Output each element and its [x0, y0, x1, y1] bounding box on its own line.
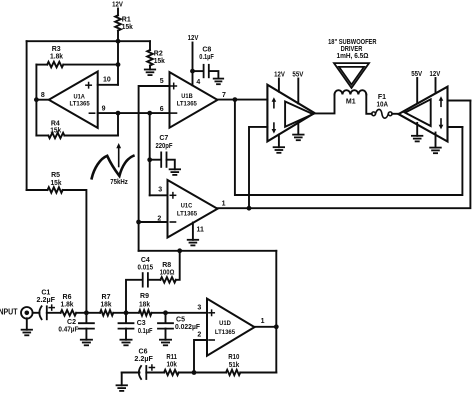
- svg-text:0.47µF: 0.47µF: [58, 327, 79, 334]
- svg-text:0.1µF: 0.1µF: [199, 54, 214, 61]
- svg-text:15k: 15k: [122, 24, 133, 31]
- svg-text:10: 10: [103, 77, 111, 84]
- svg-text:R10: R10: [228, 354, 239, 361]
- svg-text:2.2µF: 2.2µF: [37, 297, 56, 304]
- svg-text:R7: R7: [102, 294, 111, 301]
- svg-text:INPUT: INPUT: [0, 307, 18, 317]
- svg-text:10A: 10A: [377, 102, 389, 109]
- svg-text:M1: M1: [346, 99, 356, 106]
- svg-text:3: 3: [197, 305, 201, 312]
- svg-text:R11: R11: [166, 354, 177, 361]
- svg-text:10k: 10k: [166, 362, 177, 369]
- svg-text:U1C: U1C: [181, 203, 193, 210]
- svg-text:3: 3: [158, 187, 162, 194]
- svg-text:R5: R5: [51, 172, 60, 179]
- svg-text:2: 2: [197, 332, 201, 339]
- svg-text:C5: C5: [176, 317, 185, 324]
- svg-text:DRIVER: DRIVER: [341, 46, 363, 53]
- svg-text:51k: 51k: [229, 362, 240, 369]
- svg-text:F1: F1: [378, 94, 386, 101]
- svg-text:0.022µF: 0.022µF: [175, 324, 201, 331]
- svg-text:55V: 55V: [411, 71, 422, 78]
- svg-text:2.2µF: 2.2µF: [134, 356, 153, 363]
- svg-text:1.8k: 1.8k: [50, 54, 63, 61]
- svg-text:1: 1: [222, 200, 226, 207]
- svg-text:9: 9: [102, 106, 106, 113]
- svg-text:C1: C1: [41, 289, 50, 296]
- svg-text:R2: R2: [154, 51, 163, 58]
- svg-text:R9: R9: [140, 293, 149, 300]
- svg-text:1: 1: [261, 318, 265, 325]
- svg-text:R4: R4: [51, 120, 60, 127]
- svg-text:12V: 12V: [430, 71, 441, 78]
- svg-text:C8: C8: [202, 47, 211, 54]
- svg-text:18k: 18k: [139, 302, 150, 309]
- svg-text:U1D: U1D: [219, 320, 231, 327]
- svg-text:18" SUBWOOFER: 18" SUBWOOFER: [328, 39, 376, 46]
- svg-text:220pF: 220pF: [155, 143, 173, 150]
- svg-text:C7: C7: [159, 135, 168, 142]
- svg-text:12V: 12V: [274, 72, 285, 79]
- svg-text:LT1365: LT1365: [177, 211, 197, 218]
- svg-text:R1: R1: [122, 17, 131, 24]
- svg-text:0.015: 0.015: [138, 264, 154, 271]
- svg-text:LT1365: LT1365: [70, 101, 90, 108]
- svg-text:1.8k: 1.8k: [61, 302, 74, 309]
- svg-text:55V: 55V: [292, 72, 303, 79]
- svg-text:LT1365: LT1365: [215, 329, 235, 336]
- svg-text:2: 2: [157, 216, 161, 223]
- svg-text:15k: 15k: [51, 180, 62, 187]
- svg-text:11: 11: [197, 226, 205, 233]
- svg-text:15k: 15k: [154, 58, 165, 65]
- svg-text:C2: C2: [67, 319, 76, 326]
- svg-text:75kHz: 75kHz: [110, 179, 128, 186]
- svg-text:7: 7: [222, 92, 226, 99]
- svg-text:0.1µF: 0.1µF: [138, 328, 153, 335]
- svg-text:1mH, 6.5Ω: 1mH, 6.5Ω: [337, 53, 369, 60]
- svg-text:12V: 12V: [188, 35, 199, 42]
- svg-text:5: 5: [160, 78, 164, 85]
- svg-text:18k: 18k: [101, 302, 112, 309]
- svg-text:6: 6: [160, 106, 164, 113]
- svg-text:R6: R6: [63, 294, 72, 301]
- svg-text:R3: R3: [52, 46, 61, 53]
- svg-text:C3: C3: [137, 320, 146, 327]
- svg-text:LT1365: LT1365: [177, 101, 197, 108]
- svg-text:15k: 15k: [50, 128, 61, 135]
- svg-text:R8: R8: [162, 262, 171, 269]
- svg-text:C4: C4: [141, 257, 150, 264]
- svg-text:4: 4: [196, 79, 200, 86]
- svg-text:100Ω: 100Ω: [160, 270, 175, 277]
- svg-text:12V: 12V: [112, 2, 123, 9]
- svg-text:C6: C6: [139, 348, 148, 355]
- svg-text:8: 8: [41, 92, 45, 99]
- svg-text:U1B: U1B: [181, 93, 193, 100]
